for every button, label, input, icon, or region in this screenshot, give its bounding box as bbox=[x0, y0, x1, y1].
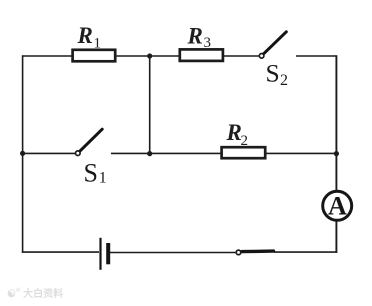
switch S1 pivot bbox=[76, 151, 81, 156]
svg-text:A: A bbox=[328, 192, 347, 221]
watermark logo bbox=[7, 285, 63, 301]
switch S2 pivot bbox=[259, 54, 264, 59]
battery negative plate (short thick) bbox=[106, 243, 110, 264]
wire S2 to top-right corner bbox=[296, 55, 336, 57]
svg-text:3: 3 bbox=[204, 35, 212, 51]
wire R3 to switch S2 bbox=[224, 55, 259, 57]
wire R1 to node A bbox=[117, 55, 150, 57]
wire left vertical bbox=[22, 55, 24, 253]
switch S3 blade (closed, bottom) bbox=[242, 249, 274, 253]
battery positive plate (long) bbox=[99, 238, 101, 270]
node C junction dot (middle center) bbox=[147, 151, 152, 156]
wire right vertical lower (ammeter to bottom corner) bbox=[335, 221, 337, 253]
wire top-left segment (left corner to R1) bbox=[23, 55, 72, 57]
wire battery to switch S3 bbox=[110, 252, 236, 254]
switch S2 blade bbox=[264, 32, 286, 54]
node D junction dot (middle right) bbox=[334, 151, 339, 156]
svg-text:1: 1 bbox=[94, 36, 102, 52]
svg-text:1: 1 bbox=[99, 170, 107, 187]
wire S1 to node C bbox=[111, 152, 150, 154]
wire right vertical upper (corner to ammeter) bbox=[335, 55, 337, 190]
node B junction dot (middle left) bbox=[20, 151, 25, 156]
switch S3 pivot bbox=[236, 250, 241, 255]
ammeter A bbox=[323, 191, 352, 220]
resistor R1 bbox=[73, 50, 116, 62]
svg-text:R: R bbox=[226, 120, 242, 145]
resistor R3 bbox=[180, 49, 223, 61]
resistor R2 bbox=[222, 147, 266, 158]
wire middle-left (node B to S1) bbox=[23, 152, 76, 154]
svg-text:S: S bbox=[266, 58, 280, 87]
svg-text:R: R bbox=[77, 23, 93, 48]
wire node A to R3 bbox=[150, 55, 180, 57]
node A junction dot (top) bbox=[147, 53, 152, 58]
svg-text:2: 2 bbox=[241, 133, 249, 149]
svg-text:S: S bbox=[84, 159, 98, 188]
wire node C to R2 bbox=[150, 152, 221, 154]
svg-text:R: R bbox=[187, 23, 203, 48]
switch S1 blade bbox=[80, 129, 102, 151]
wire bottom-right (corner to switch S3) bbox=[274, 251, 337, 253]
wire R2 to node D bbox=[266, 152, 337, 154]
svg-text:2: 2 bbox=[280, 72, 288, 89]
wire bottom-left (corner to battery) bbox=[22, 251, 99, 253]
wire center vertical (node A to node C) bbox=[149, 56, 151, 153]
